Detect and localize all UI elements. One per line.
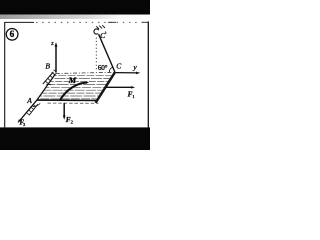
svg-text:6: 6 — [10, 29, 15, 39]
svg-text:y: y — [132, 62, 137, 71]
svg-text:B: B — [45, 62, 50, 71]
svg-text:60°: 60° — [98, 64, 108, 72]
svg-text:M: M — [68, 75, 77, 85]
svg-text:A: A — [26, 96, 32, 105]
